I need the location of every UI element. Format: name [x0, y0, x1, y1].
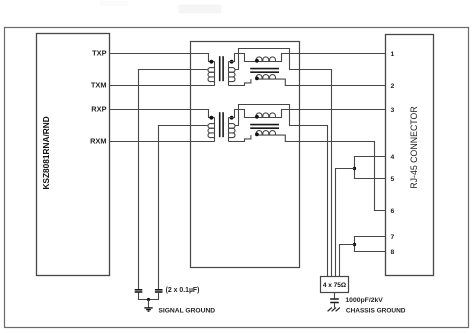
svg-text:2: 2	[391, 83, 395, 90]
svg-text:5: 5	[391, 176, 395, 183]
svg-text:RXM: RXM	[90, 137, 106, 146]
svg-text:TXP: TXP	[92, 49, 106, 58]
svg-text:1000pF/2kV: 1000pF/2kV	[345, 297, 383, 304]
svg-text:(2 x 0.1µF): (2 x 0.1µF)	[166, 287, 200, 294]
svg-text:TXM: TXM	[91, 81, 107, 90]
svg-text:RXP: RXP	[91, 105, 106, 114]
svg-text:4 x 75Ω: 4 x 75Ω	[323, 282, 346, 289]
svg-text:6: 6	[391, 208, 395, 215]
svg-text:CHASSIS GROUND: CHASSIS GROUND	[346, 307, 406, 314]
svg-text:SIGNAL GROUND: SIGNAL GROUND	[158, 307, 215, 314]
svg-text:8: 8	[391, 249, 395, 256]
svg-text:1: 1	[391, 51, 395, 58]
svg-text:RJ-45 CONNECTOR: RJ-45 CONNECTOR	[409, 106, 419, 188]
svg-text:7: 7	[391, 234, 395, 241]
svg-text:3: 3	[391, 107, 395, 114]
svg-text:4: 4	[391, 154, 395, 161]
svg-text:KSZ8081RNA/RND: KSZ8081RNA/RND	[41, 116, 51, 189]
